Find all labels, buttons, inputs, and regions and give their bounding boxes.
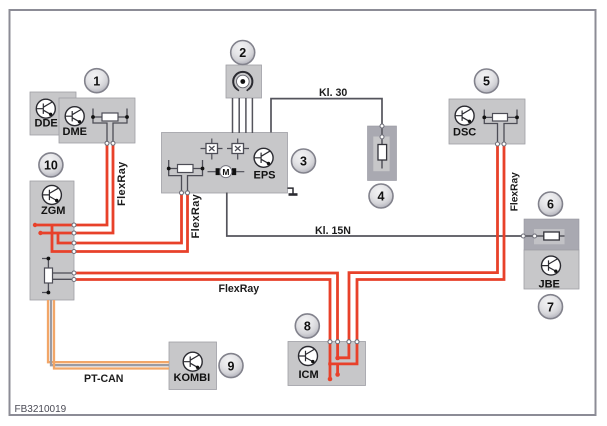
callout circle 6	[539, 192, 563, 216]
callout circle 9	[219, 354, 243, 378]
wire Kl. 30 from EPS to fuse 4	[271, 99, 382, 133]
control unit symbol KOMBI	[183, 352, 202, 371]
svg-text:9: 9	[228, 359, 235, 373]
pin connector ZGM 6	[72, 278, 76, 282]
wire FlexRay DME to ZGM (line 2)	[41, 144, 114, 234]
svg-text:5: 5	[483, 75, 490, 89]
control unit symbol EPS	[254, 148, 273, 167]
svg-text:1: 1	[93, 74, 100, 88]
pin connector fuse 4 top	[380, 124, 384, 128]
callout circle 10	[39, 153, 63, 177]
node dot end of wire A in ICM	[328, 377, 333, 382]
pin connector EPS left	[180, 191, 184, 195]
wire PT-CAN cable ZGM to KOMBI (orange outer)	[48, 300, 169, 362]
wire FlexRay ZGM to ICM (lower)	[74, 280, 330, 342]
wire FlexRay ZGM to ICM (upper)	[74, 273, 338, 342]
sensor symbol X-box right in EPS	[227, 139, 249, 160]
control unit symbol DME	[65, 107, 84, 126]
sensor symbol X-box left in EPS	[201, 139, 223, 160]
wire Kl. 15N from EPS to JBE	[227, 193, 524, 237]
pin connector JBE edge	[521, 234, 525, 238]
control unit symbol ICM	[299, 347, 318, 366]
pin connector ICM A	[328, 340, 332, 344]
svg-text:ICM: ICM	[299, 369, 319, 381]
control unit symbol DSC	[455, 106, 474, 125]
pin connector ZGM 5	[72, 271, 76, 275]
ground symbol at EPS	[288, 188, 298, 194]
wire FlexRay DME to ZGM (line 1)	[35, 144, 107, 226]
svg-text:Kl. 15N: Kl. 15N	[315, 225, 351, 237]
svg-text:8: 8	[304, 320, 311, 334]
box DSC control unit	[449, 99, 525, 144]
wires steering-column switch to EPS	[233, 98, 253, 133]
pin connector ZGM 4	[72, 250, 76, 254]
svg-text:DSC: DSC	[453, 127, 476, 139]
callout circle 1	[85, 69, 109, 93]
wire inside ICM from connector A	[329, 342, 332, 379]
wire stub below bus in ICM	[336, 364, 339, 374]
callout circle 3	[292, 149, 316, 173]
svg-text:FlexRay: FlexRay	[116, 161, 128, 206]
svg-text:3: 3	[300, 155, 307, 169]
svg-text:DDE: DDE	[35, 118, 58, 130]
callout circle 7	[539, 295, 563, 319]
svg-text:7: 7	[547, 300, 554, 314]
node stub end in ZGM (line 2)	[38, 231, 42, 235]
pin connector ZGM 2	[72, 231, 76, 235]
svg-text:DME: DME	[63, 126, 87, 138]
node stub end in ZGM (line 1)	[33, 223, 37, 227]
wire FlexRay DSC to ICM (right)	[357, 144, 504, 342]
svg-text:FB3210019: FB3210019	[15, 404, 67, 415]
svg-text:PT-CAN: PT-CAN	[84, 373, 123, 385]
pin connector DME right	[111, 141, 115, 145]
callout circle 2	[231, 41, 255, 65]
terminating resistor in EPS	[167, 160, 205, 192]
box DME control unit	[59, 98, 135, 143]
callout circle 8	[295, 314, 319, 338]
fuse symbol in box 4	[378, 126, 387, 169]
pin connector JBE inner	[533, 234, 537, 238]
pin connector ICM D	[355, 340, 359, 344]
svg-text:Kl. 30: Kl. 30	[319, 87, 347, 99]
pin connector EPS right	[186, 191, 190, 195]
control unit symbol ZGM	[42, 185, 61, 204]
svg-text:2: 2	[239, 46, 246, 60]
callout circle 5	[475, 69, 499, 93]
terminating resistor in DME	[91, 109, 129, 143]
pin connector ICM B	[336, 340, 340, 344]
svg-text:10: 10	[44, 159, 58, 173]
node junction dot B-C in ICM	[335, 356, 340, 361]
svg-text:ZGM: ZGM	[41, 205, 65, 217]
svg-text:FlexRay: FlexRay	[190, 193, 202, 238]
pin connector ZGM 3	[72, 241, 76, 245]
callout circle 4	[369, 184, 393, 208]
wire FlexRay EPS to ZGM (line 3)	[58, 193, 182, 243]
wire PT-CAN cable (orange outer lower)	[54, 300, 169, 369]
wire inside ICM from connector B	[336, 342, 339, 358]
pin connector ICM C	[347, 340, 351, 344]
wire inside ICM from connector D	[328, 342, 357, 364]
box EPS control unit	[162, 133, 288, 194]
box ZGM control unit	[30, 181, 74, 300]
svg-text:KOMBI: KOMBI	[174, 372, 211, 384]
pin connector DME left	[105, 141, 109, 145]
svg-text:M: M	[222, 167, 229, 177]
box steering-column switch (component 2)	[226, 65, 262, 98]
svg-text:JBE: JBE	[539, 279, 560, 291]
pin connector ZGM 1	[72, 223, 76, 227]
control unit symbol JBE	[542, 256, 561, 275]
wire inside ICM from connector C	[338, 342, 349, 358]
box DDE control unit	[30, 92, 76, 135]
box ICM control unit	[288, 342, 366, 386]
box KOMBI control unit	[169, 342, 217, 390]
svg-text:6: 6	[547, 198, 554, 212]
svg-text:FlexRay: FlexRay	[510, 172, 521, 211]
pin connector DSC left	[496, 142, 500, 146]
steering angle sensor symbol in box 2	[233, 72, 252, 91]
box JBE fuse section (component 6)	[524, 219, 579, 250]
wire FlexRay EPS to ZGM (line 4)	[52, 193, 188, 252]
terminating resistor in DSC	[482, 110, 518, 144]
fuse symbol in JBE	[523, 232, 564, 240]
node dot end of stub in ICM	[335, 372, 340, 377]
svg-text:4: 4	[378, 190, 385, 204]
control unit symbol DDE	[36, 99, 55, 118]
wire FlexRay DSC to ICM (left)	[349, 144, 498, 342]
pin connector fuse 4 inner	[380, 135, 384, 139]
box JBE control unit	[524, 250, 579, 289]
svg-text:FlexRay: FlexRay	[219, 283, 260, 295]
pin connector DSC right	[502, 142, 506, 146]
svg-text:EPS: EPS	[254, 170, 276, 182]
wire PT-CAN cable core (grey)	[51, 300, 169, 365]
motor M symbol in EPS	[208, 166, 245, 178]
terminating resistor in ZGM (vertical)	[42, 257, 74, 295]
box fuse holder (component 4)	[368, 126, 397, 181]
